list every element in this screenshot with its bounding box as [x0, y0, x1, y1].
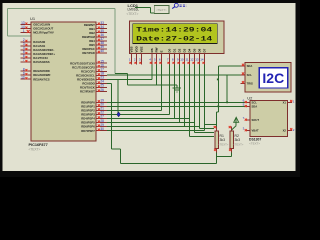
- svg-text:X1: X1: [283, 100, 287, 104]
- svg-text:MCLR/Vpp/THV: MCLR/Vpp/THV: [33, 31, 54, 35]
- pin 3 LCD1 VEE: [139, 46, 144, 64]
- pin 5 LCD1 RW: [154, 47, 159, 64]
- pin 1 LCD1 VSS: [129, 46, 134, 64]
- svg-text:SCL: SCL: [247, 73, 253, 77]
- wire: sheet border top horizontal: [8, 7, 116, 9]
- wire LCD D5: [107, 65, 214, 133]
- LCD display LCD1 body: [129, 21, 224, 53]
- svg-text:D4: D4: [188, 48, 192, 52]
- pin 35 U1 RB2: [89, 29, 107, 35]
- pin 10 LCD1 D3: [180, 48, 186, 64]
- op-amp U1 microcontroller PIC16F877 body: [31, 22, 96, 141]
- pin 6 U1 RA4/T0CKI: [20, 54, 47, 60]
- pin 9 U1 RE1/AN6/WR: [20, 71, 50, 77]
- wire LCD D4: [107, 65, 214, 137]
- pin 3 U2 VBAT: [243, 127, 259, 133]
- svg-text:Date:27-02-14: Date:27-02-14: [136, 36, 212, 43]
- pin 5 U1 RA3/AN3/VREF+: [20, 50, 55, 56]
- svg-text:<TEXT>: <TEXT>: [29, 148, 41, 152]
- svg-text:SDA: SDA: [247, 64, 253, 68]
- wire LCD D3: [107, 65, 184, 127]
- svg-text:PIC16F877: PIC16F877: [29, 143, 48, 147]
- pin 11 LCD1 D4: [185, 48, 191, 64]
- pin 40 U1 RB7/PGD: [82, 49, 107, 55]
- svg-text:RE2/AN7/CS: RE2/AN7/CS: [33, 77, 50, 81]
- value label U2 TEXT property: [249, 141, 260, 145]
- svg-text:3k3: 3k3: [220, 138, 226, 142]
- wire SDA net from U1 RC4: [107, 78, 152, 80]
- wire LCD E: [107, 65, 161, 111]
- value label DS1307: [249, 137, 261, 141]
- svg-text:12: 12: [190, 57, 194, 61]
- pin 19 U1 RD0/PSP0: [81, 99, 107, 105]
- svg-text:<TEXT>: <TEXT>: [249, 141, 260, 145]
- resistor R1 3k3: [214, 126, 229, 153]
- wire LCD RW: [156, 65, 158, 85]
- pin 4 U1 RA2/AN2/VREF-: [20, 46, 54, 52]
- wire from LCD1 to probe block: [135, 8, 154, 13]
- svg-text:26: 26: [100, 88, 104, 92]
- pin 3 U1 RA1/AN1: [20, 42, 45, 48]
- svg-text:7: 7: [23, 58, 25, 62]
- node U1 reference label: [30, 16, 36, 21]
- svg-text:<TEXT>: <TEXT>: [156, 8, 167, 12]
- value label PIC16F877: [29, 143, 48, 147]
- wire U1 RD1 to U2 SDA: [107, 105, 246, 107]
- pin 16 U1 RC1/T1OSI/CCP2: [72, 63, 107, 69]
- pin I2C debugger SCL: [241, 72, 253, 77]
- wire LCD RS: [151, 65, 153, 80]
- svg-text:D1: D1: [173, 48, 177, 52]
- pin 14 U1 OSC2/CLKOUT: [20, 25, 53, 31]
- pin 21 U1 RD2/PSP2: [81, 107, 107, 113]
- pin 20 U1 RD1/PSP1: [81, 103, 107, 109]
- svg-text:RS: RS: [150, 48, 154, 52]
- junction dots I2C nets: [217, 79, 228, 108]
- svg-text:VSS: VSS: [130, 46, 134, 52]
- pin 2 U1 RA0/AN0: [20, 38, 45, 44]
- wire I2C debugger SCL tap: [226, 75, 228, 102]
- pin 13 U1 OSC1/CLKIN: [20, 21, 50, 27]
- svg-text:SDA: SDA: [252, 104, 258, 108]
- svg-text:X2: X2: [283, 129, 287, 133]
- pin 12 LCD1 D5: [190, 48, 196, 64]
- svg-text:SOUT: SOUT: [252, 118, 260, 122]
- pin 30 U1 RD7/PSP7: [81, 127, 107, 133]
- wire U1 RC5 down and along bottom to resistors: [107, 84, 232, 164]
- svg-text:E: E: [160, 50, 164, 52]
- node blue junction marker: [117, 112, 121, 117]
- resistor R2 3k3: [229, 126, 244, 153]
- wire LCD D6: [107, 65, 214, 129]
- node LCD1 reference label: [128, 3, 139, 8]
- svg-text:14: 14: [200, 57, 204, 61]
- svg-text:13: 13: [195, 57, 199, 61]
- pin 29 U1 RD6/PSP6: [81, 123, 107, 129]
- pin 34 U1 RB1: [89, 25, 107, 31]
- svg-text:30: 30: [100, 127, 104, 131]
- pin 27 U1 RD4/PSP4: [81, 115, 107, 121]
- pin 1 U2 X1: [283, 100, 295, 105]
- pin 7 U1 RA5/AN4/SS: [20, 58, 49, 64]
- svg-text:<TEXT>: <TEXT>: [127, 12, 139, 16]
- pin 14 LCD1 D7: [200, 48, 206, 64]
- wire: long vertical from top border down to staircase: [114, 8, 116, 73]
- value label LM016L: [128, 8, 140, 12]
- wire I2C debugger SDA tap: [218, 66, 240, 106]
- pin 7 U2 SOUT: [243, 116, 260, 122]
- svg-text:D6: D6: [198, 48, 202, 52]
- svg-text:VEE: VEE: [140, 46, 144, 52]
- pin I2C debugger TRIG: [241, 81, 254, 86]
- svg-text:D5: D5: [193, 48, 197, 52]
- svg-text:SCL: SCL: [252, 100, 258, 104]
- pin 18 U1 RC3/SCK/SCL: [76, 72, 107, 78]
- svg-text:1: 1: [23, 29, 25, 33]
- decorative frame (window edges): [0, 0, 300, 177]
- wire staircase from border vertical to ground rail: [115, 74, 127, 85]
- pin 17 U1 RC2/CCP1: [81, 68, 107, 74]
- svg-text:U1: U1: [30, 16, 36, 21]
- wire LCD D7: [107, 65, 216, 131]
- pin 2 U2 X2: [283, 128, 295, 133]
- pin 8 U1 RE0/AN5/RD: [20, 67, 49, 73]
- pin 37 U1 RB4: [89, 37, 107, 43]
- pin 2 LCD1 VDD: [134, 45, 139, 64]
- svg-text:<TEXT>: <TEXT>: [218, 142, 229, 146]
- svg-text:Time:14:29:04: Time:14:29:04: [136, 27, 212, 34]
- I2C debugger instrument body: [245, 62, 291, 92]
- pin 6 LCD1 E: [159, 50, 164, 64]
- svg-text:10: 10: [21, 75, 25, 79]
- power VCC arrow symbol: [232, 117, 239, 130]
- svg-text:40: 40: [100, 49, 104, 53]
- svg-text:<TEXT>: <TEXT>: [233, 142, 244, 146]
- pin 6 U2 SCL: [243, 98, 258, 104]
- pin 1 U1 MCLR/Vpp/THV: [20, 29, 53, 35]
- pin 15 U1 RC0/T1OSO/T1CKI: [70, 59, 107, 65]
- svg-text:D0: D0: [168, 48, 172, 52]
- pin 9 LCD1 D2: [177, 48, 182, 64]
- wire: sheet border left vertical: [7, 8, 9, 36]
- wire SCL net from U1 RC3 to I2C debugger: [107, 74, 240, 76]
- svg-text:RB7/PGD: RB7/PGD: [82, 51, 94, 55]
- wire LCD D0: [107, 65, 169, 115]
- svg-text:11: 11: [185, 57, 188, 61]
- svg-text:U2: U2: [247, 95, 253, 100]
- wire LCD D2: [107, 65, 179, 123]
- svg-text:RC7/RX/DT: RC7/RX/DT: [80, 90, 95, 94]
- pin 7 LCD1 D0: [167, 48, 172, 64]
- node probe label LCD MONITOR: [149, 0, 169, 4]
- pin 10 U1 RE2/AN7/CS: [20, 75, 49, 81]
- pin 5 U2 SDA: [243, 102, 258, 108]
- probe magnifier icon: [172, 3, 186, 8]
- pin 39 U1 RB6/PGC: [82, 45, 107, 51]
- value label LCD1 TEXT property: [127, 12, 139, 16]
- pin 28 U1 RD5/PSP5: [81, 119, 107, 125]
- pin 33 U1 RB0/INT: [84, 21, 107, 27]
- pin 25 U1 RC6/TX/CK: [80, 84, 107, 90]
- pin 26 U1 RC7/RX/DT: [80, 88, 107, 94]
- ground: [173, 85, 181, 92]
- svg-text:D7: D7: [203, 48, 207, 52]
- svg-text:D3: D3: [183, 48, 187, 52]
- svg-text:10: 10: [180, 57, 184, 61]
- node U2 reference label: [247, 95, 253, 100]
- pin I2C debugger SDA: [241, 64, 253, 68]
- wire ground rail under LCD: [128, 84, 177, 86]
- probe block box: [154, 6, 169, 14]
- svg-text:RA5/AN4/SS: RA5/AN4/SS: [33, 60, 50, 64]
- svg-text:RW: RW: [155, 47, 159, 52]
- pin 13 LCD1 D6: [195, 48, 201, 64]
- pin 22 U1 RD3/PSP3: [81, 111, 107, 117]
- svg-text:D2: D2: [178, 48, 182, 52]
- svg-text:LM016L: LM016L: [128, 8, 140, 12]
- op-amp U2 RTC DS1307 body: [250, 101, 287, 137]
- wire LCD D1: [107, 65, 174, 119]
- pin 24 U1 RC5/SDO: [82, 80, 107, 86]
- svg-text:RD7/PSP7: RD7/PSP7: [81, 129, 95, 133]
- pin 23 U1 RC4/SDI/SDA: [77, 76, 107, 82]
- svg-text:VDD: VDD: [135, 45, 139, 52]
- svg-text:I2C: I2C: [262, 70, 284, 86]
- value label U1 TEXT property: [29, 148, 41, 152]
- pin 36 U1 RB3/PGM: [82, 33, 107, 39]
- pin 8 LCD1 D1: [172, 48, 177, 64]
- wire SDA branch down to blue marker: [117, 79, 119, 114]
- LCD screen with time and date: [133, 24, 218, 44]
- svg-text:VBAT: VBAT: [252, 129, 259, 133]
- svg-text:TRIG: TRIG: [247, 82, 253, 86]
- wire: sheet border horizontal into chip: [8, 35, 32, 37]
- pin 4 LCD1 RS: [149, 48, 154, 64]
- svg-text:3k3: 3k3: [235, 138, 241, 142]
- wire R1 pullup jog: [217, 106, 219, 126]
- pin 38 U1 RB5: [89, 41, 107, 47]
- wire U1 RD0 to U2 SCL: [107, 101, 246, 103]
